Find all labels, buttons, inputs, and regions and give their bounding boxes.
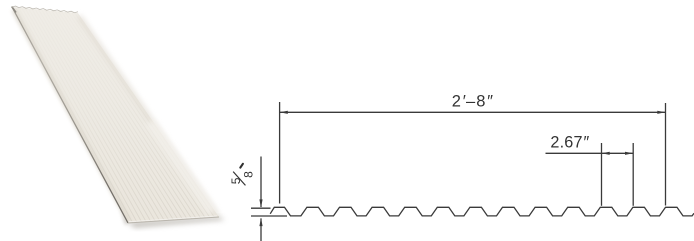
corrugated profile: [270, 207, 694, 216]
svg-text:8: 8: [241, 171, 255, 178]
panel left edge: [12, 7, 128, 223]
arrowhead 5/8" down: [259, 199, 262, 207]
panel face: [12, 7, 219, 223]
dim 2'-8" line: [280, 111, 666, 113]
panel bottom edge: [128, 217, 219, 223]
panel inner shading right: [79, 16, 218, 216]
panel serrated top edge: [12, 6, 78, 13]
panel inner shading left: [14, 10, 130, 222]
panel drop shadow: [127, 217, 225, 229]
dim 2.67" leader line: [546, 152, 634, 154]
arrowhead 2'-8" right: [657, 111, 665, 114]
dim 5/8" lower arrow line: [260, 218, 262, 241]
dim 2'-8" extension line left: [279, 102, 281, 204]
panel ridges: [15, 7, 214, 222]
dim 2.67" extension line right: [632, 143, 634, 206]
dim 2.67" extension line left: [601, 143, 603, 206]
dim 5/8" upper arrow line: [260, 157, 262, 208]
panel top-left corner notch: [12, 7, 16, 13]
arrowhead 5/8" up: [259, 218, 262, 226]
label 5/8": [229, 171, 255, 185]
arrowhead 2'-8" left: [280, 111, 288, 114]
svg-text:2′–8″: 2′–8″: [452, 93, 494, 111]
svg-text:2.67″: 2.67″: [550, 134, 589, 152]
dim 5/8" bottom extension line: [251, 215, 287, 217]
arrowhead 2.67" left: [602, 152, 610, 155]
dim 2'-8" extension line right: [665, 103, 667, 206]
panel right lower highlight: [150, 122, 212, 212]
label 5/8 inch tick: [240, 164, 243, 168]
dim 5/8" top extension line: [251, 207, 271, 209]
arrowhead 2.67" right: [625, 152, 633, 155]
